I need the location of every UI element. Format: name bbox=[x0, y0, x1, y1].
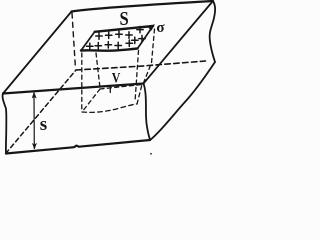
hidden back bottom edge (dashed) bbox=[76, 61, 206, 70]
gaussian box bottom face front edge (dashed) bbox=[82, 104, 137, 112]
slab left cut curve bbox=[3, 94, 7, 154]
slab top-face left edge bbox=[3, 12, 72, 94]
s arrowhead up bbox=[32, 93, 36, 99]
slab front-right cut curve bbox=[144, 84, 151, 141]
s arrowhead down bbox=[32, 143, 36, 148]
gaussian box hidden vertical edge back-right (dashed) bbox=[143, 29, 155, 84]
gaussian box top face S: back edge bbox=[95, 26, 153, 32]
plus signs on charged surface bbox=[87, 26, 146, 49]
speck bbox=[150, 153, 152, 155]
gaussian box hidden vertical edge front-right (dashed) bbox=[135, 51, 139, 103]
s dimension arrow line bbox=[33, 93, 35, 149]
arrow tip at sigma corner bbox=[149, 25, 155, 31]
short dash below V label bbox=[109, 86, 111, 93]
slab right cut curve bbox=[210, 1, 216, 62]
gaussian box hidden vertical edge back-left (dashed) bbox=[96, 53, 100, 88]
gaussian box bottom face right edge (dashed) bbox=[137, 85, 142, 105]
svg-text:S: S bbox=[120, 8, 129, 30]
gaussian box hidden vertical edge front-left (dashed) bbox=[81, 53, 83, 112]
hidden left-bottom diagonal edge (dashed) bbox=[6, 70, 76, 154]
slab top back edge bbox=[72, 1, 214, 12]
slab front bottom edge bbox=[6, 140, 150, 154]
slab bottom-right edge bbox=[150, 62, 215, 140]
gaussian box bottom face left edge (dashed) bbox=[82, 89, 100, 112]
svg-text:s: s bbox=[40, 114, 47, 135]
gaussian box top face S: front edge bbox=[81, 49, 138, 51]
slab front top edge bbox=[3, 84, 144, 94]
gaussian box top face S: right edge bbox=[138, 26, 154, 49]
svg-text:σ: σ bbox=[156, 20, 165, 36]
hidden back-left vertical edge (dashed) bbox=[72, 13, 76, 69]
gaussian box bottom face back edge (dashed) bbox=[100, 85, 142, 90]
svg-text:V: V bbox=[112, 70, 121, 86]
gaussian box top face S: left edge bbox=[81, 32, 95, 51]
slab top-face right edge bbox=[144, 1, 214, 84]
